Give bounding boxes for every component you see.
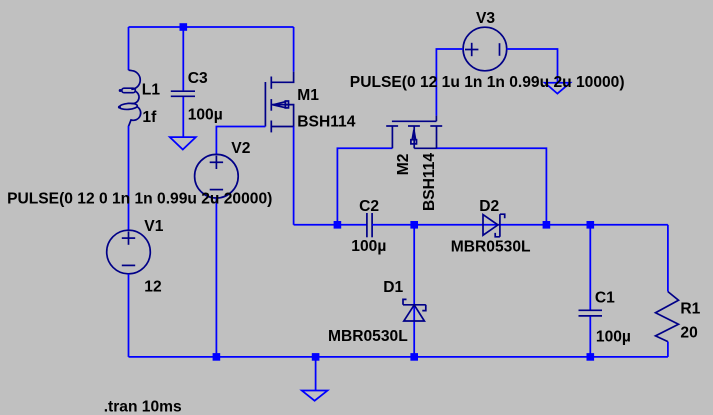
- wire bottom rail: [129, 356, 668, 358]
- wire V3 right lead: [507, 49, 558, 83]
- wire ground stem: [315, 357, 317, 391]
- junction rail / D1: [410, 353, 418, 361]
- svg-text:100µ: 100µ: [596, 329, 631, 346]
- svg-text:12: 12: [144, 279, 162, 296]
- capacitor C3: [171, 91, 195, 96]
- wire R1 top: [667, 225, 669, 292]
- wire C2 to D2: [372, 224, 668, 226]
- svg-text:BSH114: BSH114: [297, 113, 355, 130]
- wire C3 riser: [182, 27, 184, 90]
- wire V1 bottom: [128, 274, 130, 357]
- svg-text:L1: L1: [142, 81, 161, 98]
- wire top rail: [129, 26, 294, 28]
- voltage source V1: [107, 230, 151, 274]
- wire D1 riser: [413, 225, 415, 357]
- ground under C3: [170, 137, 196, 149]
- svg-text:V3: V3: [476, 10, 495, 27]
- junction mid / D1: [410, 221, 418, 229]
- svg-text:MBR0530L: MBR0530L: [328, 328, 408, 345]
- svg-text:PULSE(0 12 1u 1n 1n 0.99u 2u 1: PULSE(0 12 1u 1n 1n 0.99u 2u 10000): [350, 74, 625, 91]
- svg-text:C2: C2: [359, 198, 379, 215]
- transistor M2 BSH114: [386, 116, 442, 149]
- svg-text:V2: V2: [231, 140, 250, 157]
- ground under V3: [545, 83, 570, 94]
- voltage source V2: [195, 154, 239, 198]
- wire C1 riser: [589, 225, 591, 310]
- diode D1 MBR0530L: [403, 299, 426, 321]
- inductor L1: [118, 70, 141, 126]
- junction mid / C1: [587, 221, 595, 229]
- svg-text:V1: V1: [144, 218, 163, 235]
- svg-text:100µ: 100µ: [188, 107, 223, 124]
- wire M2 drain branch: [337, 148, 392, 225]
- svg-text:.tran 10ms: .tran 10ms: [104, 398, 182, 415]
- junction rail / V2: [213, 353, 221, 361]
- junction mid / M2 right: [543, 221, 551, 229]
- svg-text:D2: D2: [479, 198, 499, 215]
- wire R1 bottom: [667, 342, 669, 357]
- svg-text:C1: C1: [595, 290, 615, 307]
- junction top rail / C3: [180, 23, 188, 31]
- wire C1 to rail: [589, 317, 591, 357]
- svg-text:BSH114: BSH114: [421, 153, 438, 211]
- wire L1 bottom to V1: [128, 126, 130, 231]
- wire L1 column top: [128, 27, 130, 70]
- wire V2 bottom: [215, 198, 217, 357]
- ground bottom: [302, 391, 328, 401]
- junction rail / ground: [312, 353, 320, 361]
- junction rail / C1: [587, 353, 595, 361]
- svg-text:MBR0530L: MBR0530L: [451, 238, 531, 255]
- voltage source V3: [463, 27, 507, 71]
- wire mid to C2: [294, 224, 367, 226]
- svg-text:M1: M1: [297, 87, 319, 104]
- wire M1 drain: [293, 27, 295, 72]
- svg-text:1f: 1f: [142, 109, 157, 126]
- resistor R1: [656, 292, 679, 342]
- svg-text:R1: R1: [680, 301, 700, 318]
- wire C3 to ground: [182, 97, 184, 137]
- junction mid / M2 left: [334, 221, 342, 229]
- wire M1 source down: [293, 127, 295, 225]
- svg-text:C3: C3: [188, 70, 208, 87]
- wire M2 source branch: [437, 148, 547, 225]
- svg-text:100µ: 100µ: [351, 238, 386, 255]
- wire V3 left lead: [436, 49, 463, 116]
- wire M1 gate to V2: [216, 127, 265, 155]
- svg-text:PULSE(0 12 0 1n 1n 0.99u 2u 20: PULSE(0 12 0 1n 1n 0.99u 2u 20000): [7, 191, 272, 208]
- capacitor C2: [367, 213, 372, 237]
- svg-text:M2: M2: [395, 153, 412, 175]
- capacitor C1: [579, 310, 603, 316]
- diode D2 MBR0530L: [483, 214, 505, 237]
- svg-text:20: 20: [680, 325, 698, 342]
- svg-text:D1: D1: [383, 279, 403, 296]
- transistor M1 BSH114: [265, 72, 293, 133]
